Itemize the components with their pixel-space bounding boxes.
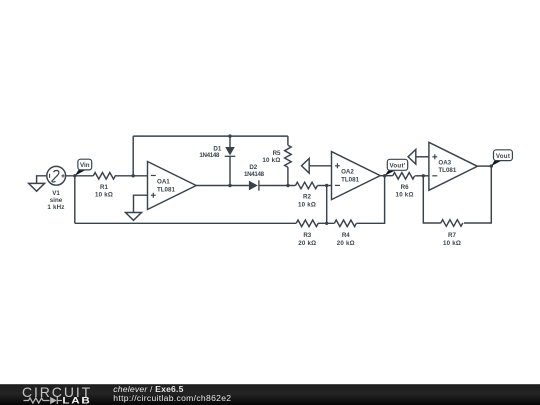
label R7 10 kΩ [443, 232, 461, 247]
svg-text:R4: R4 [342, 232, 350, 239]
label OA2 TL081 [341, 169, 359, 184]
svg-text:http://circuitlab.com/ch862e2: http://circuitlab.com/ch862e2 [113, 393, 231, 403]
svg-text:10 kΩ: 10 kΩ [95, 192, 113, 199]
svg-text:20 kΩ: 20 kΩ [298, 240, 316, 247]
resistor R2 [296, 182, 318, 189]
svg-text:1N4148: 1N4148 [199, 152, 220, 159]
CircuitLab logo: resistor squiggle and diode [24, 397, 63, 404]
wire R6 to OA3 inverting input [415, 175, 429, 177]
svg-text:10 kΩ: 10 kΩ [443, 240, 461, 247]
wire node Vin down to bottom rail [74, 176, 76, 224]
label R6 10 kΩ [396, 184, 414, 199]
svg-text:OA3: OA3 [438, 159, 451, 166]
wire D1 to OA1 output net [229, 157, 231, 186]
label R1 10 kΩ [95, 184, 113, 199]
wire node B up to feedback rail [132, 136, 134, 176]
svg-text:OA2: OA2 [341, 169, 354, 176]
wire R1 to OA1 inverting input [115, 175, 148, 177]
label OA3 TL081 [438, 159, 456, 174]
wire bottom rail left segment [75, 222, 296, 224]
svg-text:R6: R6 [401, 184, 409, 191]
label OA1 TL081 [157, 179, 175, 194]
node dot R6 / R7 tap [422, 174, 425, 177]
ground GND4 (OA3 +, rotated) [408, 149, 416, 164]
wire OA3 output to node Vout [477, 165, 491, 167]
label D2 1N4148 [244, 164, 265, 178]
node label Vout [491, 150, 512, 166]
resistor R3 [296, 220, 318, 227]
ground GND2 (OA1 +) [126, 213, 142, 221]
svg-text:10 kΩ: 10 kΩ [298, 201, 316, 208]
wire OA1 + input to ground [134, 195, 148, 212]
diode D1 1N4148 [225, 147, 236, 156]
svg-text:OA1: OA1 [157, 179, 170, 186]
wire OA3 + input to ground [416, 156, 429, 158]
wire R4 to Vout' vertical [356, 176, 384, 224]
svg-text:1 kHz: 1 kHz [47, 204, 64, 211]
node dot bottom rail R3/R4 [325, 222, 328, 225]
svg-text:Vout: Vout [496, 153, 510, 160]
svg-text:R7: R7 [448, 232, 456, 239]
voltage source V1 sine 1 kHz [47, 166, 66, 185]
wire feedback top rail [133, 135, 288, 137]
node Vin junction dot [73, 174, 76, 177]
resistor R5 (vertical) [285, 136, 292, 185]
node C junction dot [286, 184, 289, 187]
wire V1 to node Vin [66, 175, 94, 177]
svg-text:20 kΩ: 20 kΩ [337, 240, 355, 247]
svg-text:R2: R2 [303, 194, 311, 201]
node label Vout' [385, 159, 408, 176]
svg-text:R3: R3 [303, 232, 311, 239]
wire OA2 - input down to bottom rail [326, 186, 328, 224]
op-amp OA3 TL081 [429, 142, 478, 190]
node label Vin [75, 159, 92, 176]
svg-text:R1: R1 [100, 184, 108, 191]
node Vout' junction dot [383, 174, 386, 177]
svg-text:LAB: LAB [62, 396, 91, 405]
resistor R6 [393, 173, 415, 180]
wire R3 to R4 [318, 222, 334, 224]
label R4 20 kΩ [337, 232, 355, 247]
op-amp OA2 TL081 [332, 152, 381, 200]
node dot below OA2 - input [325, 184, 328, 187]
svg-text:Vout': Vout' [389, 163, 405, 170]
svg-text:TL081: TL081 [438, 167, 456, 174]
wire OA2 output to node Vout' [380, 175, 393, 177]
svg-text:1N4148: 1N4148 [244, 171, 265, 178]
svg-text:TL081: TL081 [341, 176, 359, 183]
label V1 sine 1 kHz [47, 190, 64, 211]
wire R7 to OA3 - input [423, 176, 441, 223]
node Vout junction dot [490, 164, 493, 167]
resistor R1 [93, 173, 115, 180]
svg-text:sine: sine [50, 197, 63, 204]
label R3 20 kΩ [298, 232, 316, 247]
svg-text:TL081: TL081 [157, 186, 175, 193]
op-amp OA1 TL081 [148, 162, 197, 210]
node B junction dot [132, 174, 135, 177]
wire OA1 output to D2 [196, 185, 249, 187]
ground GND1 (V1) [29, 176, 47, 191]
wire D2 to node C [259, 185, 296, 187]
resistor R7 [441, 220, 463, 227]
label R5 10 kΩ [262, 150, 281, 164]
diode D2 1N4148 [249, 180, 259, 190]
svg-text:10 kΩ: 10 kΩ [262, 157, 280, 164]
ground GND3 (OA2 +, rotated) [302, 158, 310, 173]
wire Vout down to R7 rail [464, 166, 491, 223]
resistor R4 [334, 220, 356, 227]
wire D1 branch from top rail [229, 136, 231, 147]
node dot D1 / output wire [228, 184, 231, 187]
svg-text:Vin: Vin [80, 162, 90, 169]
label D1 1N4148 [199, 146, 222, 159]
label R2 10 kΩ [298, 194, 316, 209]
wire R2 to OA2 inverting input [318, 185, 332, 187]
wire OA2 + input to ground [309, 165, 331, 167]
svg-text:10 kΩ: 10 kΩ [396, 192, 414, 199]
node dot top rail / D1 [228, 134, 231, 137]
